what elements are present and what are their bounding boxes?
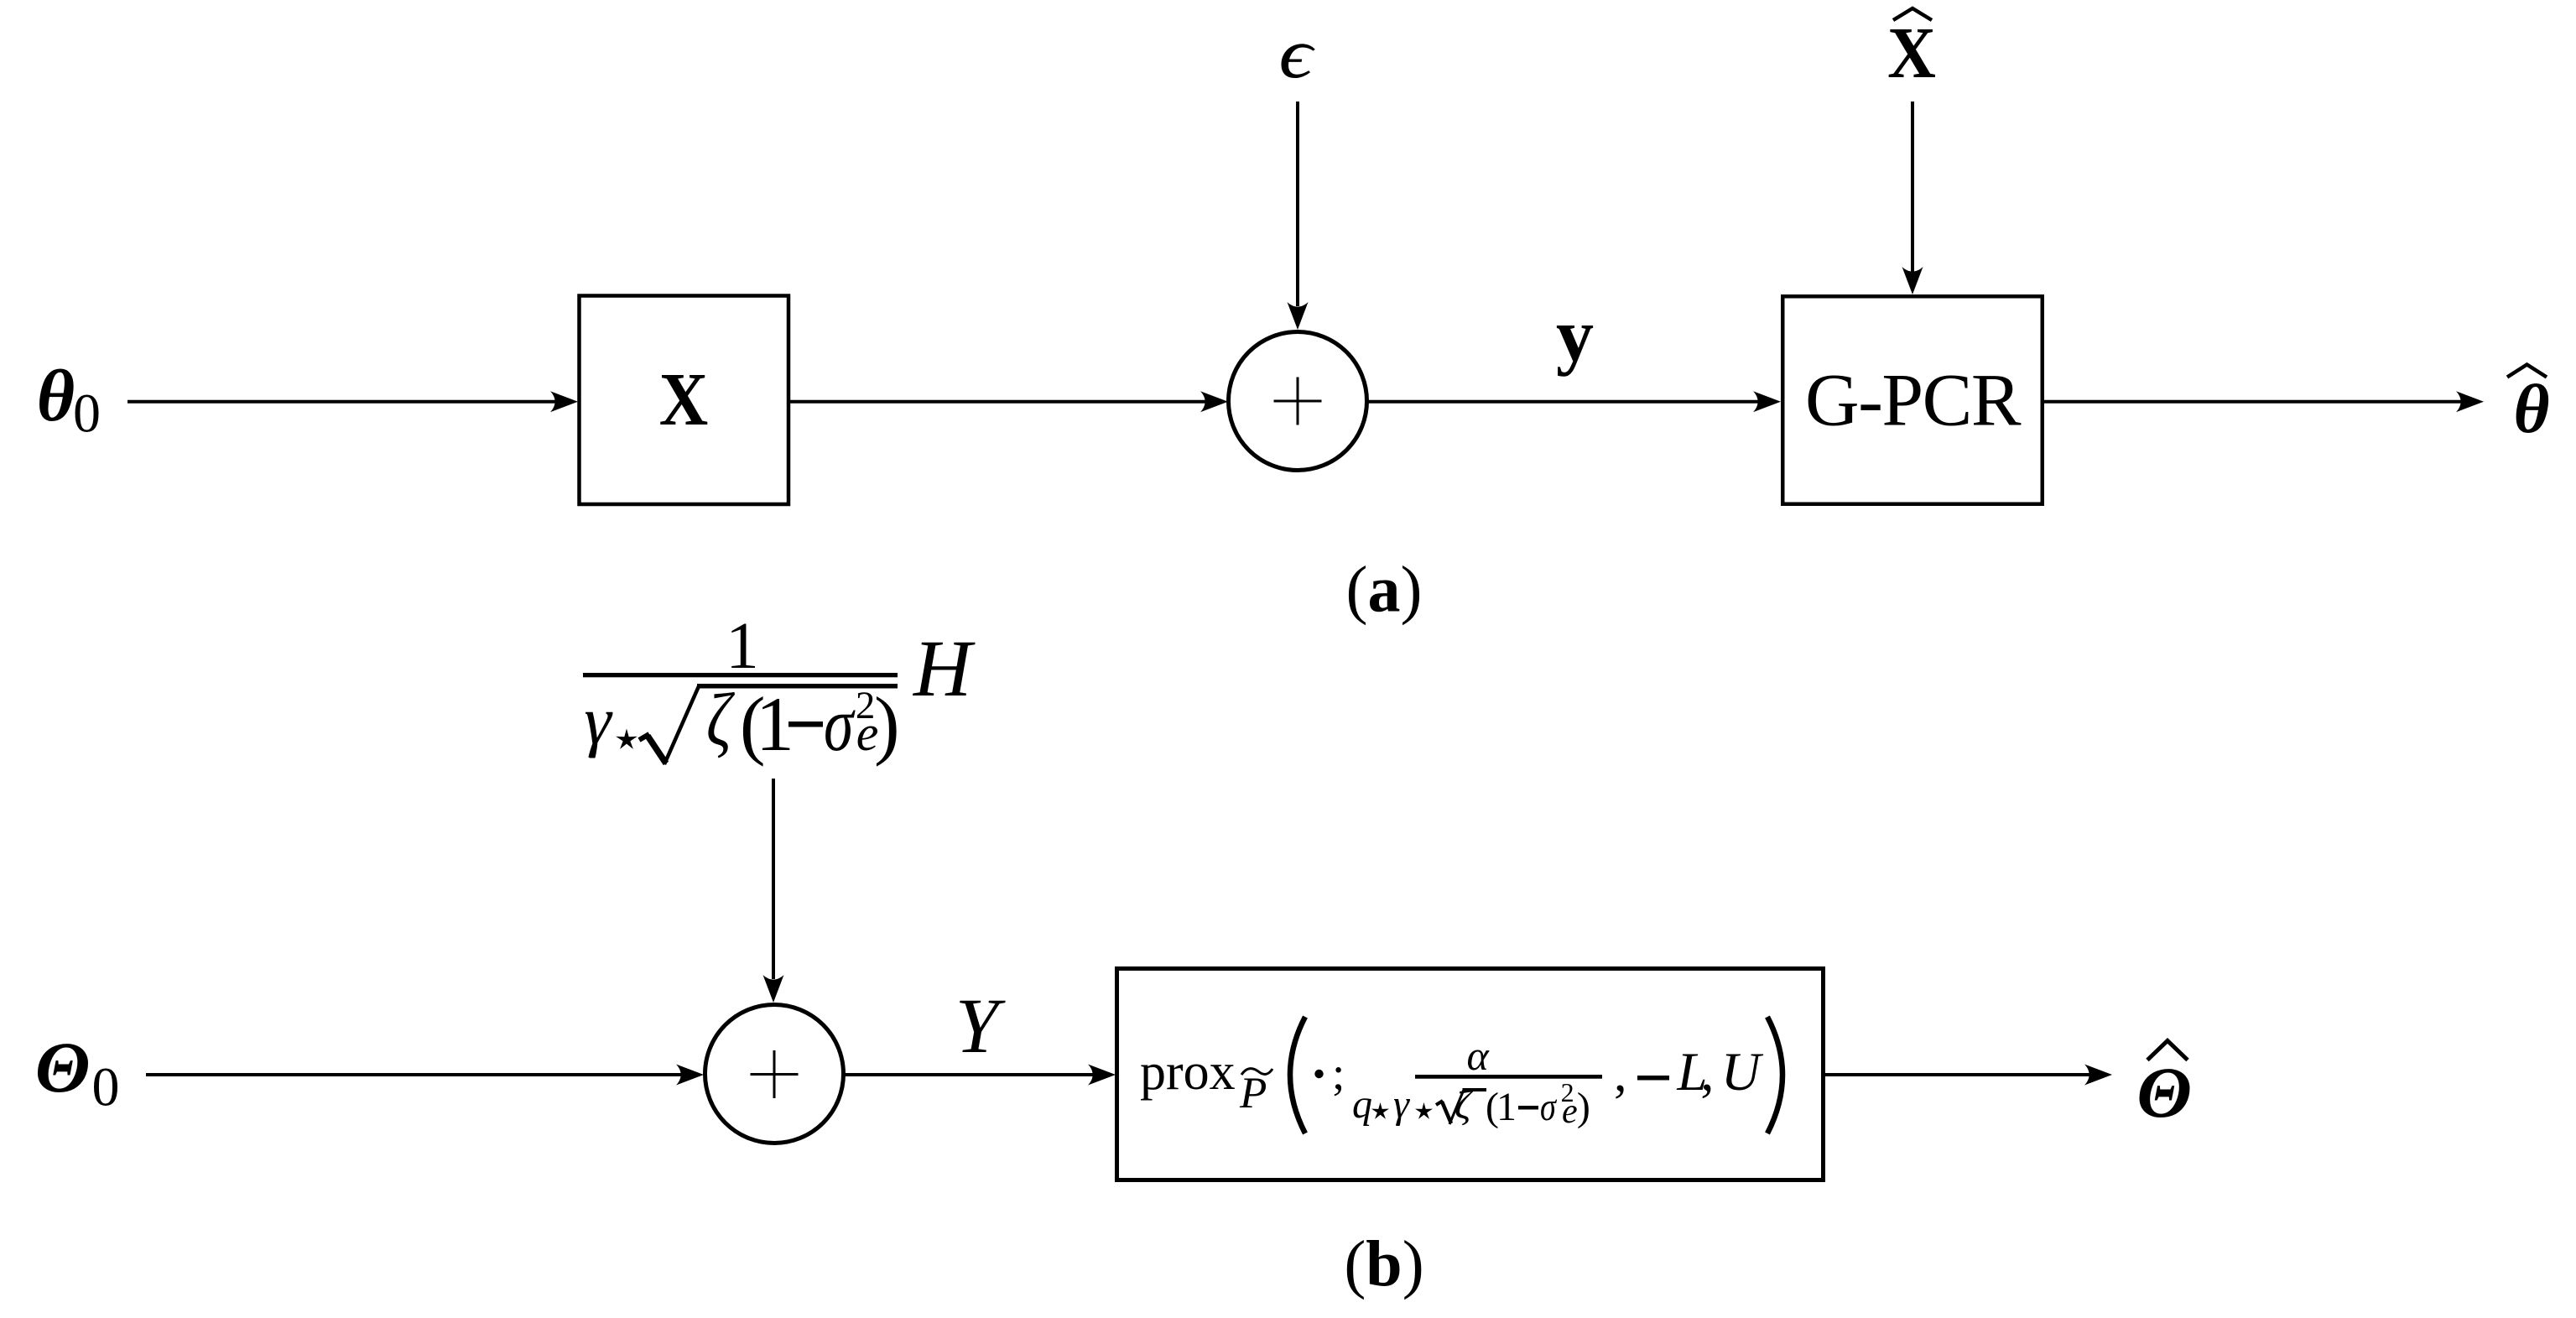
wire Theta0 to summer S2 — [146, 1073, 681, 1076]
small radical vinculum — [1463, 1088, 1487, 1091]
svg-text:): ) — [874, 681, 900, 767]
star subscript of q — [1371, 1102, 1389, 1119]
svg-text:θ: θ — [2514, 370, 2550, 447]
svg-text:e: e — [1562, 1092, 1578, 1131]
block G-PCR — [1782, 296, 2043, 504]
wire theta0 to block X — [127, 400, 555, 404]
svg-text:X: X — [1887, 13, 1936, 94]
svg-text:0: 0 — [73, 383, 101, 445]
svg-text:θ: θ — [37, 355, 75, 436]
big right paren — [1767, 1017, 1782, 1133]
svg-text:(b): (b) — [1344, 1227, 1423, 1300]
svg-text:H: H — [912, 623, 976, 713]
svg-text:Y: Y — [955, 983, 1006, 1070]
svg-text:,: , — [1614, 1045, 1627, 1102]
plus sign of summer S2 — [751, 1073, 799, 1076]
arrowhead into block X — [550, 391, 578, 412]
arrowhead to theta-hat — [2456, 391, 2484, 412]
svg-text:P: P — [1239, 1069, 1267, 1117]
fraction bar — [583, 673, 898, 677]
summer S1 (adder circle) — [1229, 332, 1367, 471]
arrowhead into block G-PCR — [1753, 391, 1781, 412]
star subscript of gamma — [616, 729, 637, 749]
svg-text:γ: γ — [584, 682, 613, 758]
star subscript of gamma (inner) — [1415, 1102, 1433, 1119]
arrowhead to Theta-hat — [2084, 1065, 2112, 1086]
svg-text:,: , — [1700, 1042, 1714, 1102]
svg-text:Θ: Θ — [35, 1027, 91, 1107]
wire X-hat to block G-PCR — [1911, 102, 1914, 273]
svg-text:1: 1 — [1496, 1085, 1517, 1129]
svg-text:): ) — [1577, 1085, 1590, 1129]
svg-text:σ: σ — [1540, 1085, 1557, 1129]
wire gain label to summer S2 — [772, 779, 775, 979]
svg-text:q: q — [1352, 1082, 1372, 1127]
plus sign of summer S1 — [1274, 400, 1322, 403]
inner fraction bar — [1415, 1075, 1602, 1079]
wire block X to summer S1 — [790, 400, 1205, 404]
wire epsilon to summer S1 — [1296, 102, 1299, 306]
svg-text:0: 0 — [92, 1057, 120, 1118]
minus before L — [1637, 1076, 1669, 1081]
svg-text:G-PCR: G-PCR — [1805, 359, 2022, 442]
svg-text:;: ; — [1332, 1048, 1345, 1099]
wire summer S2 to prox block — [844, 1073, 1094, 1076]
svg-text:α: α — [1467, 1032, 1491, 1079]
arrowhead into summer S2 — [676, 1065, 704, 1086]
svg-text:y: y — [1556, 294, 1594, 378]
small radical sign — [1436, 1101, 1443, 1105]
svg-text:prox: prox — [1140, 1044, 1236, 1101]
svg-text:(a): (a) — [1346, 553, 1423, 626]
radical vinculum — [697, 684, 898, 689]
svg-text:U: U — [1721, 1042, 1764, 1102]
hat accent over Theta — [2147, 1041, 2188, 1060]
arrowhead gain into summer S2 — [763, 975, 784, 1003]
svg-text:ζ: ζ — [706, 678, 735, 762]
block prox — [1117, 969, 1824, 1180]
arrowhead epsilon into summer S1 — [1288, 302, 1309, 330]
wire G-PCR to theta-hat output — [2044, 400, 2461, 404]
svg-text:ϵ: ϵ — [1278, 15, 1315, 94]
hat accent over theta — [2507, 365, 2547, 378]
svg-text:γ: γ — [1393, 1082, 1410, 1127]
big left paren — [1290, 1017, 1305, 1133]
hat accent over X — [1893, 8, 1932, 20]
small minus — [1518, 1106, 1538, 1110]
centered dot argument — [1314, 1070, 1323, 1078]
svg-text:σ: σ — [824, 680, 856, 767]
arrowhead X-hat into G-PCR — [1902, 267, 1923, 294]
block X — [580, 296, 789, 505]
arrowhead into summer S1 — [1200, 391, 1228, 412]
svg-text:Θ: Θ — [2136, 1052, 2192, 1133]
minus sign — [788, 722, 823, 727]
summer S2 (adder circle) — [705, 1005, 844, 1143]
radical sign — [639, 734, 649, 740]
arrowhead into prox block — [1088, 1065, 1116, 1086]
wire prox block to Theta-hat output — [1825, 1073, 2089, 1076]
svg-text:1: 1 — [726, 610, 759, 683]
svg-text:X: X — [659, 357, 708, 441]
tilde over P — [1241, 1069, 1272, 1075]
wire summer S1 to block G-PCR — [1367, 400, 1759, 404]
